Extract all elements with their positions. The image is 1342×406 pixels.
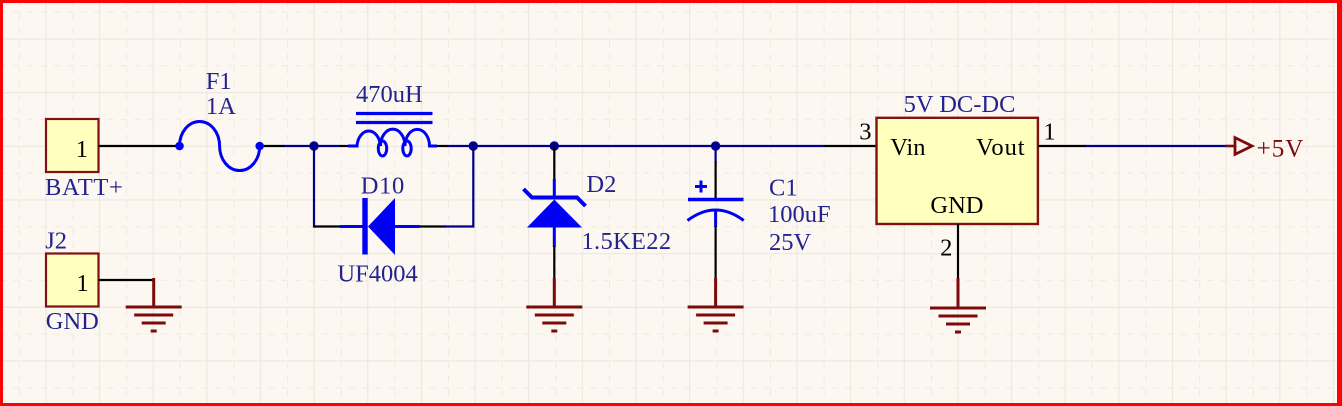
svg-text:1.5KE22: 1.5KE22 [582, 228, 672, 255]
node D junction (cap) [711, 141, 720, 150]
ground (J2) [126, 278, 182, 331]
node C junction (zener) [550, 141, 559, 150]
svg-text:1: 1 [1043, 119, 1055, 146]
svg-text:BATT+: BATT+ [45, 174, 124, 201]
svg-text:470uH: 470uH [356, 81, 423, 108]
ground (DC-DC) [930, 278, 986, 332]
wire cap bottom pin [714, 226, 716, 280]
svg-text:5V DC-DC: 5V DC-DC [904, 91, 1016, 118]
connector BATT+ box [46, 119, 99, 172]
wire node A to inductor [314, 145, 340, 147]
wire D10 left branch [314, 146, 316, 227]
wire Vout pin [1038, 145, 1086, 147]
svg-text:1A: 1A [206, 93, 236, 120]
svg-text:GND: GND [930, 192, 983, 219]
svg-text:GND: GND [46, 308, 99, 335]
svg-text:C1: C1 [769, 175, 798, 202]
svg-text:100uF: 100uF [768, 201, 831, 228]
svg-text:25V: 25V [769, 229, 812, 256]
inductor L 470uH [348, 114, 437, 157]
svg-text:1: 1 [76, 136, 88, 163]
connector J2 GND box [46, 254, 99, 307]
ground (zener) [526, 278, 582, 331]
wire BATT+ pin [99, 145, 177, 147]
wire zener top pin [553, 146, 555, 181]
wire fuse to node A [264, 145, 285, 147]
svg-text:D2: D2 [586, 171, 616, 198]
svg-text:Vout: Vout [976, 134, 1025, 161]
ground (cap) [688, 278, 744, 331]
svg-text:UF4004: UF4004 [337, 261, 417, 288]
capacitor C1 [688, 181, 744, 228]
node B junction [469, 141, 478, 150]
diode D10 [340, 198, 420, 255]
node A junction [309, 141, 318, 150]
zener diode D2 [524, 179, 586, 247]
wire J2 pin [99, 279, 154, 281]
wire zener bottom pin [553, 246, 555, 280]
svg-text:1: 1 [76, 270, 88, 297]
svg-text:2: 2 [940, 234, 952, 261]
svg-text:J2: J2 [45, 227, 67, 254]
wire cap top pin [714, 146, 716, 162]
DC-DC module body [877, 118, 1038, 224]
wire GND pin [957, 224, 959, 280]
svg-text:+5V: +5V [1257, 135, 1305, 162]
svg-text:3: 3 [859, 119, 871, 146]
svg-text:F1: F1 [206, 68, 232, 95]
power port +5V [1225, 138, 1252, 155]
wire inductor to node B [437, 145, 448, 147]
wire D10 right branch [420, 225, 446, 227]
wire main bus node B to DC-DC [473, 145, 824, 147]
fuse F1 [175, 121, 264, 170]
svg-text:Vin: Vin [890, 134, 925, 161]
svg-text:D10: D10 [361, 172, 405, 199]
